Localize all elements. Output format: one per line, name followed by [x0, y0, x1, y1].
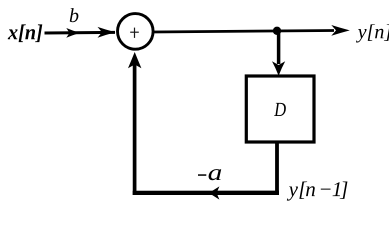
plus sign in adder: [130, 31, 139, 33]
wire feedback up to adder: [133, 62, 137, 195]
node label x[n] input: [8, 24, 43, 42]
wire node dot down to delay box: [277, 31, 281, 65]
node label y[n-1]: [287, 182, 348, 201]
label -a gain minus stroke: [198, 174, 206, 176]
arrowhead at adder input: [98, 27, 116, 38]
wire input x[n] to adder: [45, 31, 116, 35]
wire bottom feedback horizontal: [133, 191, 279, 195]
junction node dot on output wire: [273, 27, 281, 35]
arrowhead into delay box top: [272, 61, 285, 76]
arrowhead left on feedback wire: [209, 186, 220, 199]
op-amp summing junction circle: [118, 14, 154, 50]
label b gain: [70, 8, 79, 22]
arrowhead at y[n] output: [331, 25, 350, 36]
arrowhead up into adder bottom: [128, 52, 141, 68]
node label y[n] output: [356, 24, 389, 42]
wire delay box bottom down: [275, 142, 279, 193]
delay element D box: [246, 76, 314, 142]
label -a gain letter a: [209, 169, 222, 180]
wire adder to y[n] output: [152, 31, 334, 33]
label D delay: [274, 103, 286, 116]
arrowhead mid input wire: [66, 28, 80, 38]
